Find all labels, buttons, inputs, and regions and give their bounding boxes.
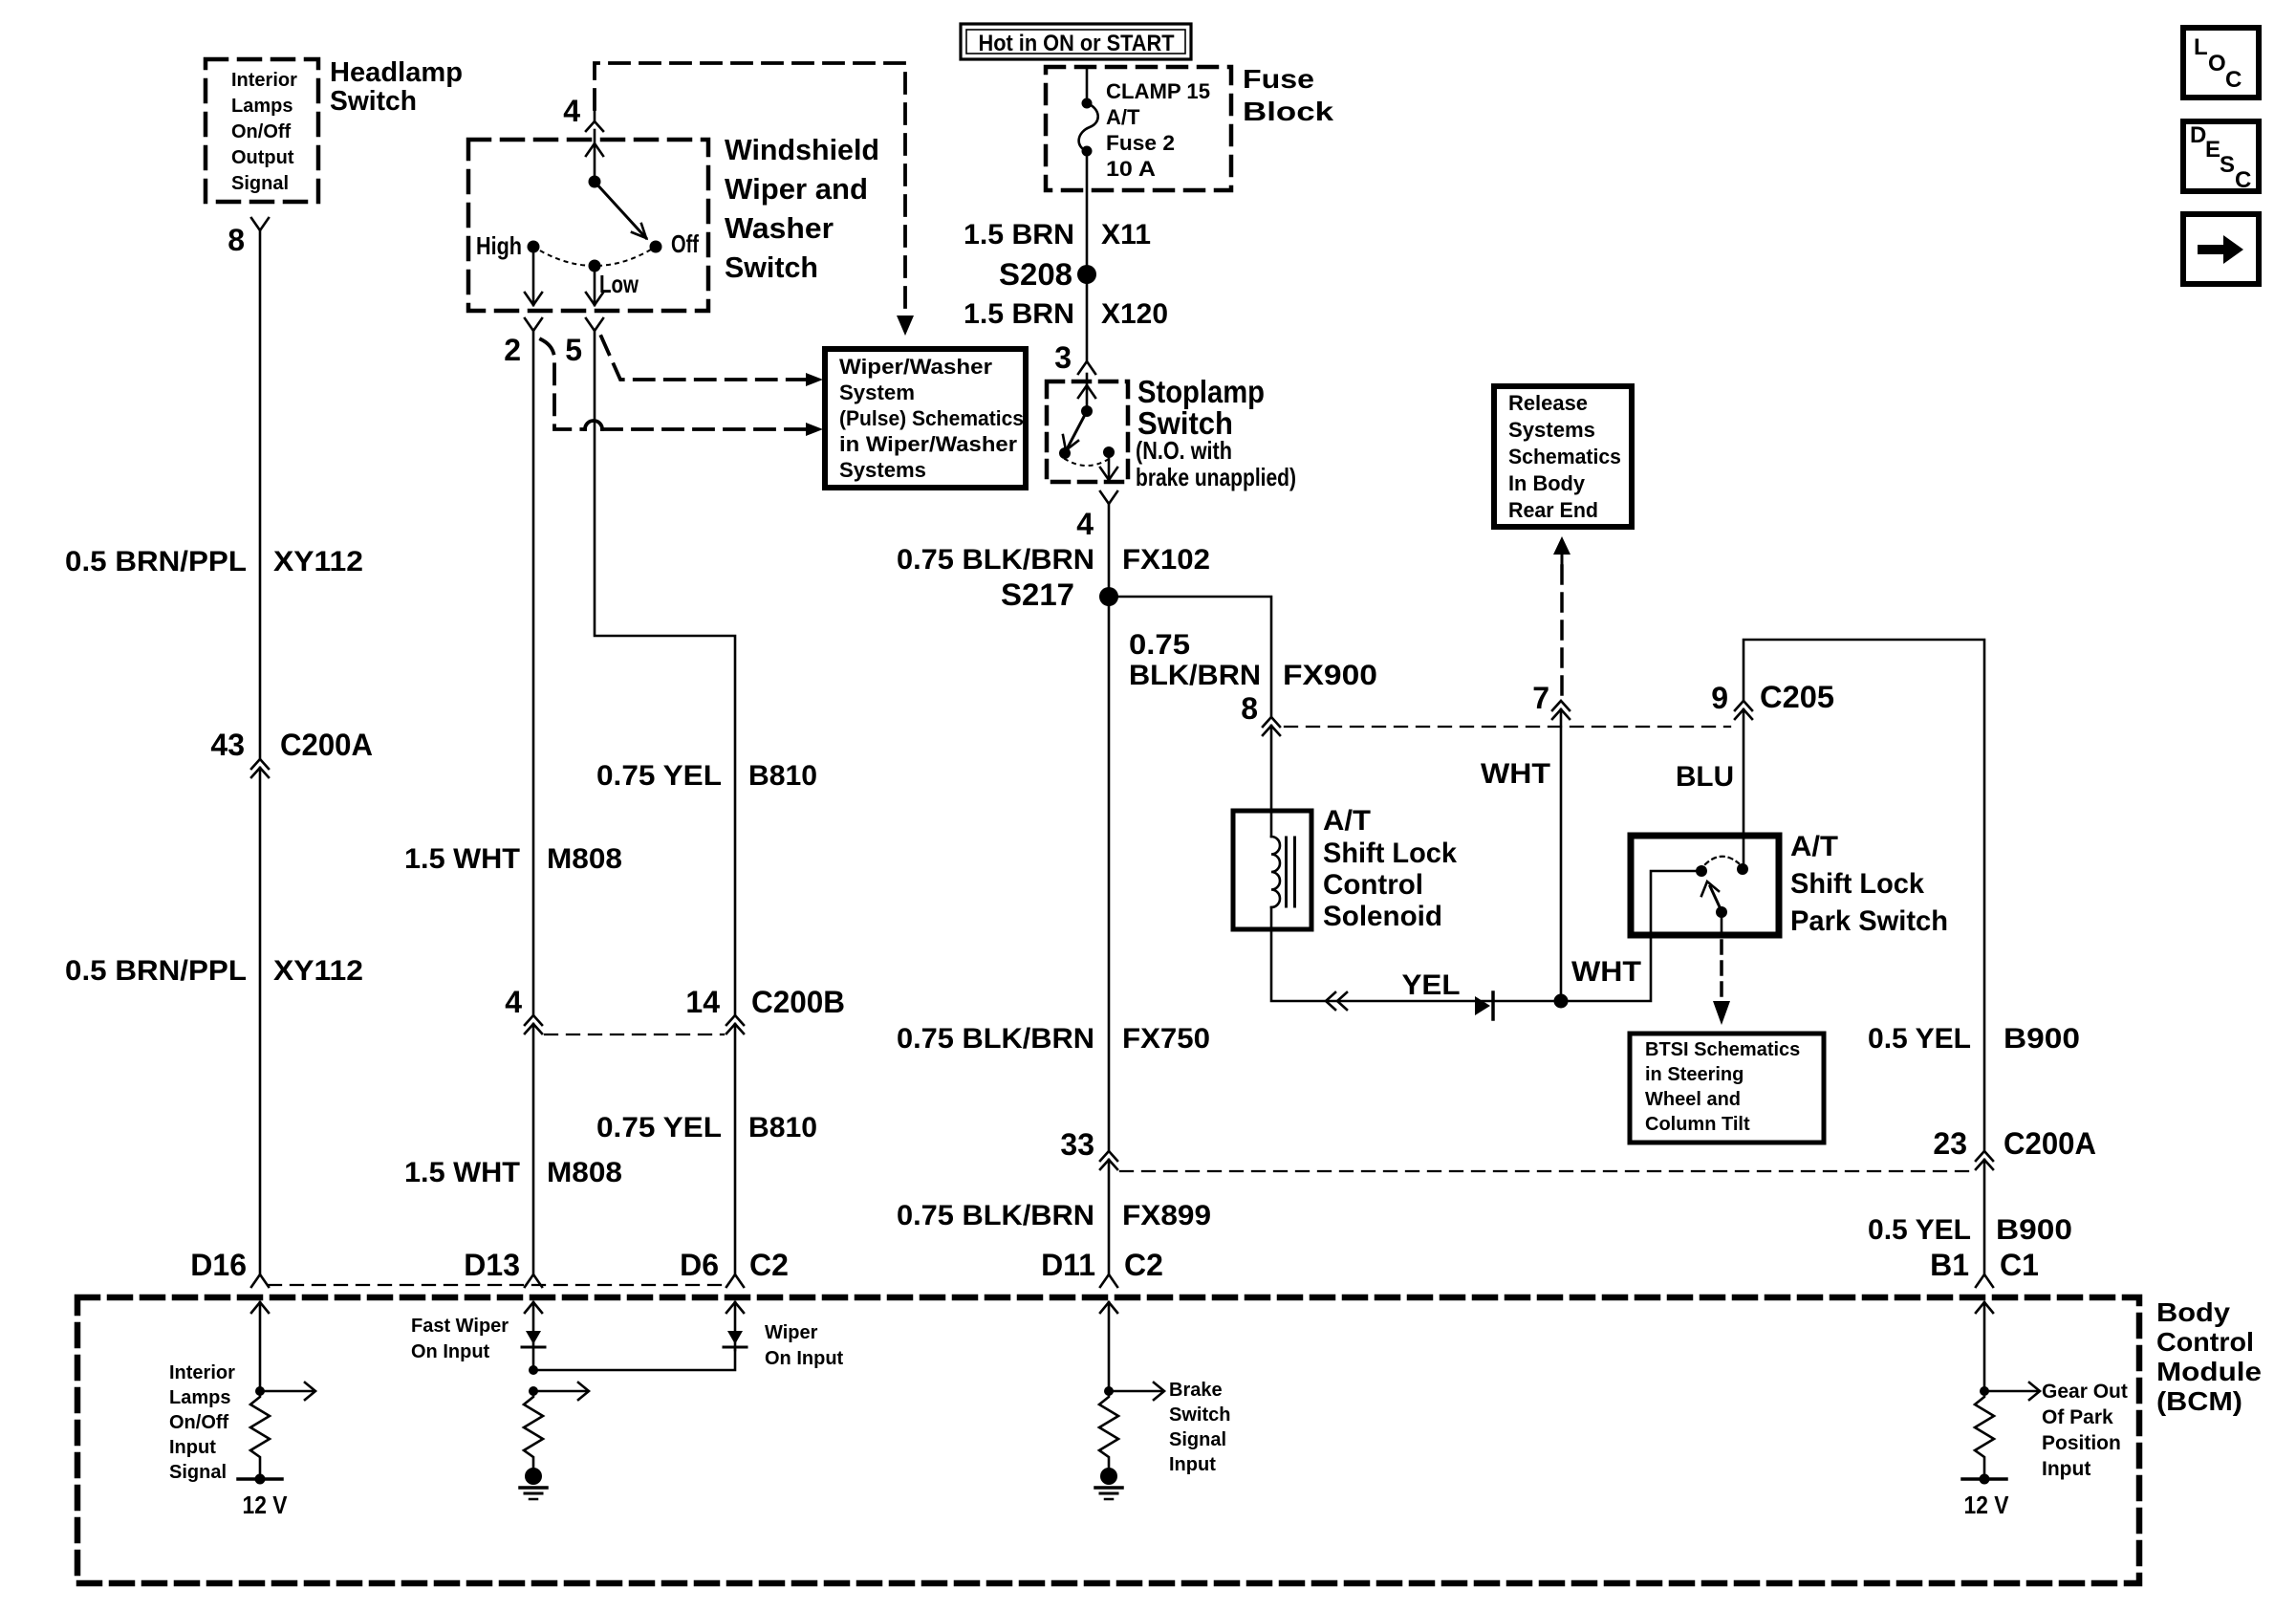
svg-text:(BCM): (BCM)	[2156, 1386, 2242, 1416]
wire: wiper pin 5 jog to B810 column down to BCM D6	[595, 331, 735, 1015]
svg-text:1.5 BRN: 1.5 BRN	[964, 298, 1074, 330]
svg-text:Control: Control	[1323, 869, 1423, 901]
svg-text:On Input: On Input	[765, 1348, 844, 1369]
wiper switch Low contact	[589, 260, 601, 272]
brake switch signal arrow	[1109, 1390, 1162, 1393]
D11 pin connector	[1100, 1274, 1117, 1287]
label A/T Shift Lock Control Solenoid	[1323, 805, 1457, 932]
svg-text:Wheel and: Wheel and	[1645, 1089, 1741, 1110]
label Body Control Module (BCM)	[2156, 1297, 2262, 1416]
BTSI schematics reference box	[1630, 1034, 1824, 1143]
svg-text:0.75: 0.75	[1129, 629, 1190, 661]
svg-text:Wiper/Washer: Wiper/Washer	[839, 355, 992, 379]
interior lamps node dot	[255, 1386, 265, 1396]
svg-text:B810: B810	[748, 760, 817, 792]
A/T shift lock park switch box	[1631, 836, 1779, 935]
Low position arrow down	[594, 272, 596, 305]
label Stoplamp Switch	[1136, 374, 1296, 491]
terminal symbol on YEL wire	[1475, 996, 1490, 1015]
svg-text:Body: Body	[2156, 1297, 2230, 1327]
svg-text:C1: C1	[2000, 1248, 2039, 1282]
svg-text:Shift Lock: Shift Lock	[1323, 838, 1457, 869]
ground (D13 column)	[525, 1468, 542, 1485]
svg-text:2: 2	[504, 333, 521, 367]
svg-text:Windshield: Windshield	[725, 133, 879, 166]
svg-text:Control: Control	[2156, 1327, 2254, 1357]
label Brake Switch Signal Input	[1169, 1380, 1230, 1475]
svg-text:C200B: C200B	[751, 985, 845, 1019]
wire: D13 node to D6 column	[533, 1350, 735, 1370]
svg-text:1.5 WHT: 1.5 WHT	[404, 843, 520, 875]
label 0.75 BLK/BRN FX102	[897, 544, 1210, 576]
label Windshield Wiper and Washer Switch	[725, 133, 879, 284]
brake switch node dot	[1104, 1386, 1114, 1396]
svg-text:Rear End: Rear End	[1508, 498, 1598, 522]
label 0.75 BLK/BRN FX900	[1129, 629, 1377, 691]
park switch left contact	[1696, 865, 1707, 877]
label Fast Wiper On Input	[411, 1316, 509, 1362]
label 1.5 WHT M808 (upper)	[404, 843, 622, 875]
svg-text:4: 4	[563, 94, 580, 128]
svg-text:Systems: Systems	[1508, 418, 1595, 442]
svg-text:Signal: Signal	[1169, 1429, 1226, 1450]
wiper switch Off contact	[650, 241, 662, 253]
svg-text:Release: Release	[1508, 391, 1588, 415]
arrow reference box	[2183, 214, 2259, 284]
dashed connector line C200B	[545, 1034, 724, 1035]
wire: solenoid output to park switch (YEL)	[1271, 871, 1696, 1001]
svg-text:Systems: Systems	[839, 458, 926, 482]
svg-text:8: 8	[227, 223, 245, 257]
LOC reference box	[2183, 28, 2259, 98]
wiper input pull-down resistor	[524, 1391, 543, 1468]
svg-text:BLU: BLU	[1676, 761, 1734, 793]
gear out of park node dot	[1980, 1386, 1989, 1396]
label 0.75 YEL B810 (upper)	[596, 760, 817, 792]
svg-text:brake unapplied): brake unapplied)	[1136, 463, 1296, 491]
svg-text:WHT: WHT	[1481, 758, 1550, 790]
wiper/washer schematics reference box	[825, 349, 1026, 488]
svg-text:Switch: Switch	[725, 250, 818, 284]
svg-text:FX900: FX900	[1283, 660, 1377, 691]
wire: wiper switch common feed with arrow up	[594, 130, 596, 182]
dashed reference line to connector 7	[1560, 566, 1564, 699]
svg-text:S208: S208	[999, 257, 1072, 292]
dashed reference to BTSI schematics	[1720, 941, 1723, 1000]
svg-text:In Body: In Body	[1508, 471, 1586, 495]
interior lamps pull-up resistor	[250, 1391, 270, 1479]
High position arrow down	[532, 252, 535, 305]
label 0.5 YEL B900 (upper)	[1868, 1023, 2080, 1055]
wire: S217 branch to connector 8 (FX900)	[1109, 597, 1271, 717]
svg-text:1.5 BRN: 1.5 BRN	[964, 219, 1074, 250]
stoplamp pivot contact	[1081, 405, 1093, 417]
BCM pin D16 entry arrow	[259, 1302, 262, 1391]
svg-text:O: O	[2208, 51, 2226, 76]
svg-text:Input: Input	[1169, 1454, 1216, 1475]
svg-text:Input: Input	[169, 1437, 216, 1458]
svg-text:(Pulse) Schematics: (Pulse) Schematics	[839, 406, 1024, 430]
svg-text:Fast Wiper: Fast Wiper	[411, 1316, 509, 1337]
dashed reference from pin 5 to wiper/washer schematics	[601, 337, 805, 380]
label Gear Out Of Park Position Input	[2042, 1381, 2128, 1480]
BCM pin D11 entry arrow	[1108, 1302, 1111, 1391]
svg-text:High: High	[476, 231, 522, 260]
svg-text:D16: D16	[190, 1248, 247, 1282]
svg-text:Switch: Switch	[1169, 1404, 1230, 1426]
label 0.75 BLK/BRN FX750	[897, 1023, 1210, 1055]
svg-text:9: 9	[1711, 681, 1728, 715]
svg-text:12 V: 12 V	[1964, 1491, 2010, 1519]
dashed reference from pin 2 to wiper/washer schematics	[541, 339, 585, 429]
svg-text:B1: B1	[1930, 1248, 1969, 1282]
wiper input signal arrow	[533, 1390, 587, 1393]
svg-text:S217: S217	[1001, 577, 1074, 612]
inline connector 9 (C205)	[1735, 701, 1752, 710]
inline connector pin 4 side (C200B)	[525, 1015, 542, 1025]
D13 input symbol	[526, 1331, 541, 1344]
12V termination (D16)	[238, 1477, 282, 1481]
svg-text:in Wiper/Washer: in Wiper/Washer	[839, 432, 1017, 456]
label Fuse Block	[1243, 64, 1334, 126]
svg-text:B810: B810	[748, 1112, 817, 1143]
wire: fuse output down to stoplamp switch pin 3	[1086, 151, 1089, 361]
headlamp switch pin 8 connector	[251, 218, 269, 230]
svg-text:D13: D13	[464, 1248, 520, 1282]
wiper switch High contact	[528, 241, 540, 253]
svg-text:Output: Output	[231, 147, 294, 168]
hot in ON or START box	[961, 24, 1191, 59]
svg-text:Wiper: Wiper	[765, 1322, 818, 1343]
svg-text:3: 3	[1054, 340, 1072, 375]
inline connector 43 C200A	[251, 759, 269, 769]
svg-text:YEL: YEL	[1402, 969, 1461, 1001]
svg-text:8: 8	[1241, 691, 1258, 726]
wiper switch pin 4 connector	[594, 109, 596, 121]
headlamp switch dashed box	[206, 59, 318, 202]
svg-text:FX899: FX899	[1122, 1200, 1211, 1231]
fast wiper node dot	[529, 1365, 538, 1375]
arrow head (pin 5 reference)	[806, 373, 823, 386]
svg-text:0.75 YEL: 0.75 YEL	[596, 1112, 722, 1143]
wiper switch pin 5 connector	[586, 318, 603, 331]
svg-text:A/T: A/T	[1106, 105, 1140, 129]
inline connector 7 (C205)	[1552, 701, 1570, 710]
wiper input node dot	[529, 1386, 538, 1396]
svg-text:D6: D6	[680, 1248, 719, 1282]
svg-text:Schematics: Schematics	[1508, 445, 1621, 468]
splice S217	[1099, 587, 1118, 606]
release systems reference box	[1494, 386, 1632, 527]
stoplamp pin 4 connector	[1100, 491, 1117, 504]
svg-text:M808: M808	[547, 843, 622, 875]
park switch right contact	[1737, 863, 1748, 875]
svg-text:Fuse 2: Fuse 2	[1106, 131, 1175, 155]
svg-text:D: D	[2190, 122, 2206, 148]
BCM pin D13 entry arrow	[532, 1302, 535, 1370]
dashed connector line C200A	[1120, 1170, 1973, 1172]
svg-text:CLAMP 15: CLAMP 15	[1106, 79, 1210, 103]
wiper switch pin 2 connector	[525, 318, 542, 331]
svg-text:E: E	[2205, 137, 2220, 163]
inline connector 8 (FX900)	[1263, 717, 1280, 727]
svg-text:Position: Position	[2042, 1432, 2121, 1454]
D13 pin connector	[525, 1274, 542, 1287]
svg-text:1.5 WHT: 1.5 WHT	[404, 1157, 520, 1188]
inline connector 23 (C200A)	[1976, 1151, 1993, 1161]
svg-text:Park Switch: Park Switch	[1790, 905, 1948, 937]
fuse CLAMP 15 A/T Fuse 2 10 A	[1082, 98, 1093, 109]
wire: ignition feed into fuse	[1086, 67, 1089, 103]
svg-text:Fuse: Fuse	[1243, 64, 1314, 94]
stoplamp switch pin 3 connector	[1078, 361, 1095, 374]
svg-text:23: 23	[1933, 1126, 1967, 1161]
12V termination (B1)	[1962, 1477, 2006, 1481]
svg-text:C200A: C200A	[280, 728, 373, 762]
label Wiper On Input	[765, 1322, 844, 1369]
svg-text:M808: M808	[547, 1157, 622, 1188]
wire: headlamp pin 8 down to connector C200A	[259, 230, 262, 759]
svg-text:0.75 BLK/BRN: 0.75 BLK/BRN	[897, 544, 1094, 576]
gear out of park pull-up resistor	[1975, 1391, 1994, 1479]
headlamp switch output label text	[231, 70, 297, 194]
wire B900: connector 9 up and over to right side	[1744, 640, 1984, 1151]
solenoid core lines	[1285, 838, 1288, 906]
wire: C200A to BCM pin D16	[259, 768, 262, 1274]
svg-text:Solenoid: Solenoid	[1323, 901, 1442, 932]
body control module dashed box	[77, 1297, 2139, 1583]
svg-text:C2: C2	[1124, 1248, 1163, 1282]
fuse block dashed box	[1046, 67, 1231, 190]
B1 pin connector	[1976, 1274, 1993, 1287]
splice S208	[1077, 265, 1096, 284]
svg-text:B900: B900	[1996, 1214, 2072, 1246]
svg-text:33: 33	[1060, 1127, 1094, 1162]
label 0.5 YEL B900 (lower)	[1868, 1214, 2072, 1246]
stoplamp output arrow down	[1108, 452, 1111, 480]
svg-text:Gear Out: Gear Out	[2042, 1381, 2128, 1403]
wire: S217 down to connector 33	[1108, 597, 1111, 1151]
label A/T Shift Lock Park Switch	[1790, 831, 1948, 937]
stoplamp contact arc (dotted)	[1065, 459, 1109, 466]
svg-text:Brake: Brake	[1169, 1380, 1223, 1401]
svg-text:C205: C205	[1760, 680, 1834, 714]
svg-text:L: L	[2194, 34, 2208, 60]
svg-text:On Input: On Input	[411, 1341, 490, 1362]
svg-text:Signal: Signal	[169, 1462, 227, 1483]
svg-text:Shift Lock: Shift Lock	[1790, 868, 1924, 900]
labels 4 14 C200B	[505, 985, 845, 1019]
brake switch pull-down resistor	[1099, 1391, 1118, 1468]
park switch lever arm	[1710, 886, 1722, 911]
inline connector pin 14 side (C200B)	[726, 1015, 744, 1025]
svg-text:14: 14	[685, 985, 720, 1019]
DESC reference box	[2183, 121, 2259, 191]
D6 pin connector	[726, 1274, 744, 1287]
svg-text:A/T: A/T	[1790, 831, 1838, 862]
interior lamps signal arrow	[260, 1390, 314, 1393]
label 1.5 WHT M808 (lower)	[404, 1157, 622, 1188]
D16 pin connector	[251, 1274, 269, 1287]
wire: stoplamp pin 4 to splice S217	[1108, 504, 1111, 597]
svg-text:C2: C2	[749, 1248, 789, 1282]
svg-text:43: 43	[210, 728, 245, 762]
label Interior Lamps On/Off Input Signal	[169, 1362, 235, 1483]
svg-text:Column Tilt: Column Tilt	[1645, 1114, 1750, 1135]
wire: connector 23 to BCM pin B1	[1983, 1160, 1986, 1274]
svg-text:Hot in ON or START: Hot in ON or START	[979, 31, 1175, 56]
svg-text:0.75 YEL: 0.75 YEL	[596, 760, 722, 792]
inline connector chevrons on YEL wire	[1326, 992, 1335, 1010]
svg-text:Washer: Washer	[725, 211, 834, 245]
svg-text:Module: Module	[2156, 1357, 2262, 1386]
arrow head (pin 2 reference)	[806, 423, 823, 436]
svg-text:7: 7	[1532, 681, 1549, 715]
svg-text:C200A: C200A	[2004, 1126, 2096, 1161]
svg-text:5: 5	[565, 333, 582, 367]
park switch contact arc (dashed)	[1705, 857, 1739, 864]
svg-text:BTSI Schematics: BTSI Schematics	[1645, 1039, 1800, 1060]
svg-text:B900: B900	[2004, 1023, 2080, 1055]
dashed connector line C2	[269, 1284, 726, 1286]
svg-text:S: S	[2220, 152, 2235, 178]
ground (D11 column)	[1100, 1468, 1117, 1485]
svg-text:(N.O. with: (N.O. with	[1136, 436, 1232, 465]
svg-text:0.75 BLK/BRN: 0.75 BLK/BRN	[897, 1200, 1094, 1231]
svg-text:X11: X11	[1101, 219, 1151, 250]
svg-text:Switch: Switch	[330, 86, 417, 117]
inline connector 33 (C200A)	[1100, 1151, 1117, 1161]
svg-text:Wiper and: Wiper and	[725, 172, 868, 206]
BCM pin B1 entry arrow	[1983, 1302, 1986, 1391]
svg-text:4: 4	[505, 985, 522, 1019]
gear out of park signal arrow	[1984, 1390, 2038, 1393]
svg-text:Lamps: Lamps	[169, 1387, 230, 1408]
svg-text:0.75 BLK/BRN: 0.75 BLK/BRN	[897, 1023, 1094, 1055]
svg-text:FX750: FX750	[1122, 1023, 1210, 1055]
wire WHT: connector 7 down to YEL junction	[1560, 709, 1563, 1001]
label D11 C2	[1041, 1248, 1163, 1282]
wiper switch position arc (dotted)	[533, 247, 656, 266]
svg-text:0.5 BRN/PPL: 0.5 BRN/PPL	[65, 546, 247, 577]
arrow into wiper/washer schematics box	[897, 316, 914, 336]
stoplamp feed wire with arrow up	[1086, 374, 1089, 411]
park switch pivot contact	[1716, 906, 1727, 918]
svg-text:FX102: FX102	[1122, 544, 1210, 576]
svg-text:XY112: XY112	[273, 955, 363, 987]
dashed reference outline from wiper switch pin 4	[595, 63, 905, 314]
svg-text:12 V: 12 V	[243, 1491, 289, 1519]
stoplamp left contact	[1059, 447, 1071, 459]
svg-text:Off: Off	[671, 229, 699, 258]
stoplamp lever arm	[1068, 411, 1087, 447]
label B1 C1	[1930, 1248, 2039, 1282]
svg-text:Low: Low	[599, 270, 639, 298]
BCM pin D6 entry arrow	[734, 1302, 737, 1350]
solenoid coil	[1271, 837, 1280, 907]
label 0.75 YEL B810 (lower)	[596, 1112, 817, 1143]
stoplamp switch dashed box	[1047, 381, 1128, 482]
dashed connector line C205	[1285, 726, 1730, 728]
svg-text:C: C	[2225, 67, 2242, 93]
svg-text:X120: X120	[1101, 298, 1168, 330]
svg-text:Signal: Signal	[231, 173, 289, 194]
svg-text:Stoplamp: Stoplamp	[1137, 374, 1265, 409]
svg-text:System: System	[839, 381, 915, 404]
windshield wiper switch dashed box	[468, 140, 708, 311]
svg-text:C: C	[2235, 167, 2251, 193]
svg-text:in Steering: in Steering	[1645, 1064, 1744, 1085]
svg-text:D11: D11	[1041, 1248, 1095, 1282]
park switch output wire	[1721, 912, 1723, 935]
svg-text:BLK/BRN: BLK/BRN	[1129, 660, 1261, 691]
svg-text:10 A: 10 A	[1106, 157, 1156, 181]
arrow to release systems box	[1553, 536, 1570, 555]
junction dot WHT/YEL	[1554, 994, 1569, 1009]
svg-text:XY112: XY112	[273, 546, 363, 577]
svg-text:Lamps: Lamps	[231, 96, 292, 117]
svg-text:0.5 YEL: 0.5 YEL	[1868, 1214, 1971, 1246]
arrow to BTSI box	[1713, 1001, 1730, 1025]
svg-text:0.5 YEL: 0.5 YEL	[1868, 1023, 1971, 1055]
svg-text:Block: Block	[1243, 97, 1334, 126]
label 0.75 BLK/BRN FX899	[897, 1200, 1211, 1231]
label 1.5 BRN X120	[964, 298, 1168, 330]
svg-text:Headlamp: Headlamp	[330, 57, 463, 88]
label 1.5 BRN X11	[964, 219, 1151, 250]
svg-text:Of Park: Of Park	[2042, 1406, 2113, 1428]
wire: connector 33 to BCM pin D11	[1108, 1160, 1111, 1274]
svg-text:On/Off: On/Off	[169, 1412, 229, 1433]
label Headlamp Switch	[330, 57, 463, 117]
svg-text:Interior: Interior	[169, 1362, 235, 1383]
label 0.5 BRN/PPL XY112 (upper)	[65, 546, 363, 577]
wiper switch lever arm	[595, 182, 646, 238]
svg-text:0.5 BRN/PPL: 0.5 BRN/PPL	[65, 955, 247, 987]
wire BLU: connector 9 down into park switch	[1743, 709, 1745, 869]
wire: wiper pin 2 to BCM D13	[532, 331, 535, 1015]
svg-text:A/T: A/T	[1323, 805, 1371, 837]
svg-text:4: 4	[1076, 507, 1094, 541]
wire: connector 8 down to solenoid	[1270, 726, 1273, 837]
svg-text:WHT: WHT	[1571, 956, 1641, 988]
label 0.5 BRN/PPL XY112 (lower)	[65, 955, 363, 987]
svg-text:On/Off: On/Off	[231, 121, 292, 142]
svg-text:Input: Input	[2042, 1458, 2090, 1480]
A/T shift lock control solenoid box	[1233, 811, 1311, 929]
wiper switch pivot contact	[589, 176, 601, 188]
D6 input symbol	[727, 1331, 743, 1344]
stoplamp right contact	[1103, 446, 1115, 458]
labels D13 D6 C2	[464, 1248, 789, 1282]
svg-text:Interior: Interior	[231, 70, 297, 91]
